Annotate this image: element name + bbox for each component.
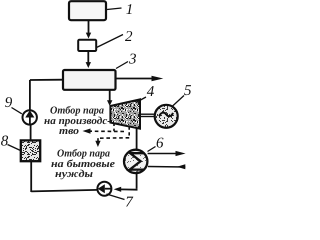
svg-text:Отбор пара: Отбор пара (50, 105, 105, 116)
svg-text:7: 7 (125, 194, 134, 209)
svg-text:3: 3 (128, 52, 137, 68)
svg-text:9: 9 (5, 95, 13, 111)
svg-text:1: 1 (126, 2, 134, 18)
svg-text:8: 8 (1, 133, 9, 149)
svg-text:нужды: нужды (55, 169, 94, 180)
svg-text:6: 6 (156, 136, 164, 152)
svg-text:4: 4 (147, 84, 155, 100)
svg-text:5: 5 (184, 83, 192, 99)
svg-text:тво: тво (59, 126, 79, 137)
svg-text:2: 2 (125, 29, 133, 45)
